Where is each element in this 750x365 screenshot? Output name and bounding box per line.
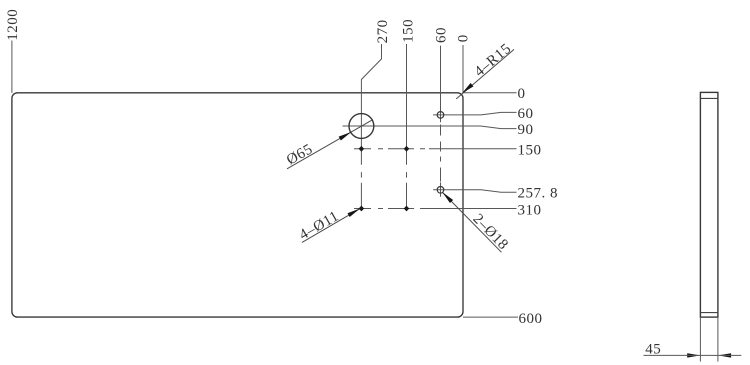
svg-text:310: 310 xyxy=(518,203,542,219)
svg-text:90: 90 xyxy=(518,122,534,138)
svg-text:60: 60 xyxy=(518,106,534,122)
svg-text:270: 270 xyxy=(375,19,391,43)
svg-text:600: 600 xyxy=(519,311,543,327)
svg-text:257. 8: 257. 8 xyxy=(518,185,559,201)
svg-text:1200: 1200 xyxy=(5,9,21,41)
svg-text:0: 0 xyxy=(456,34,472,42)
svg-text:150: 150 xyxy=(400,19,416,43)
svg-text:60: 60 xyxy=(434,27,450,43)
svg-text:45: 45 xyxy=(645,341,661,357)
svg-text:0: 0 xyxy=(518,86,526,102)
svg-text:150: 150 xyxy=(518,143,542,159)
